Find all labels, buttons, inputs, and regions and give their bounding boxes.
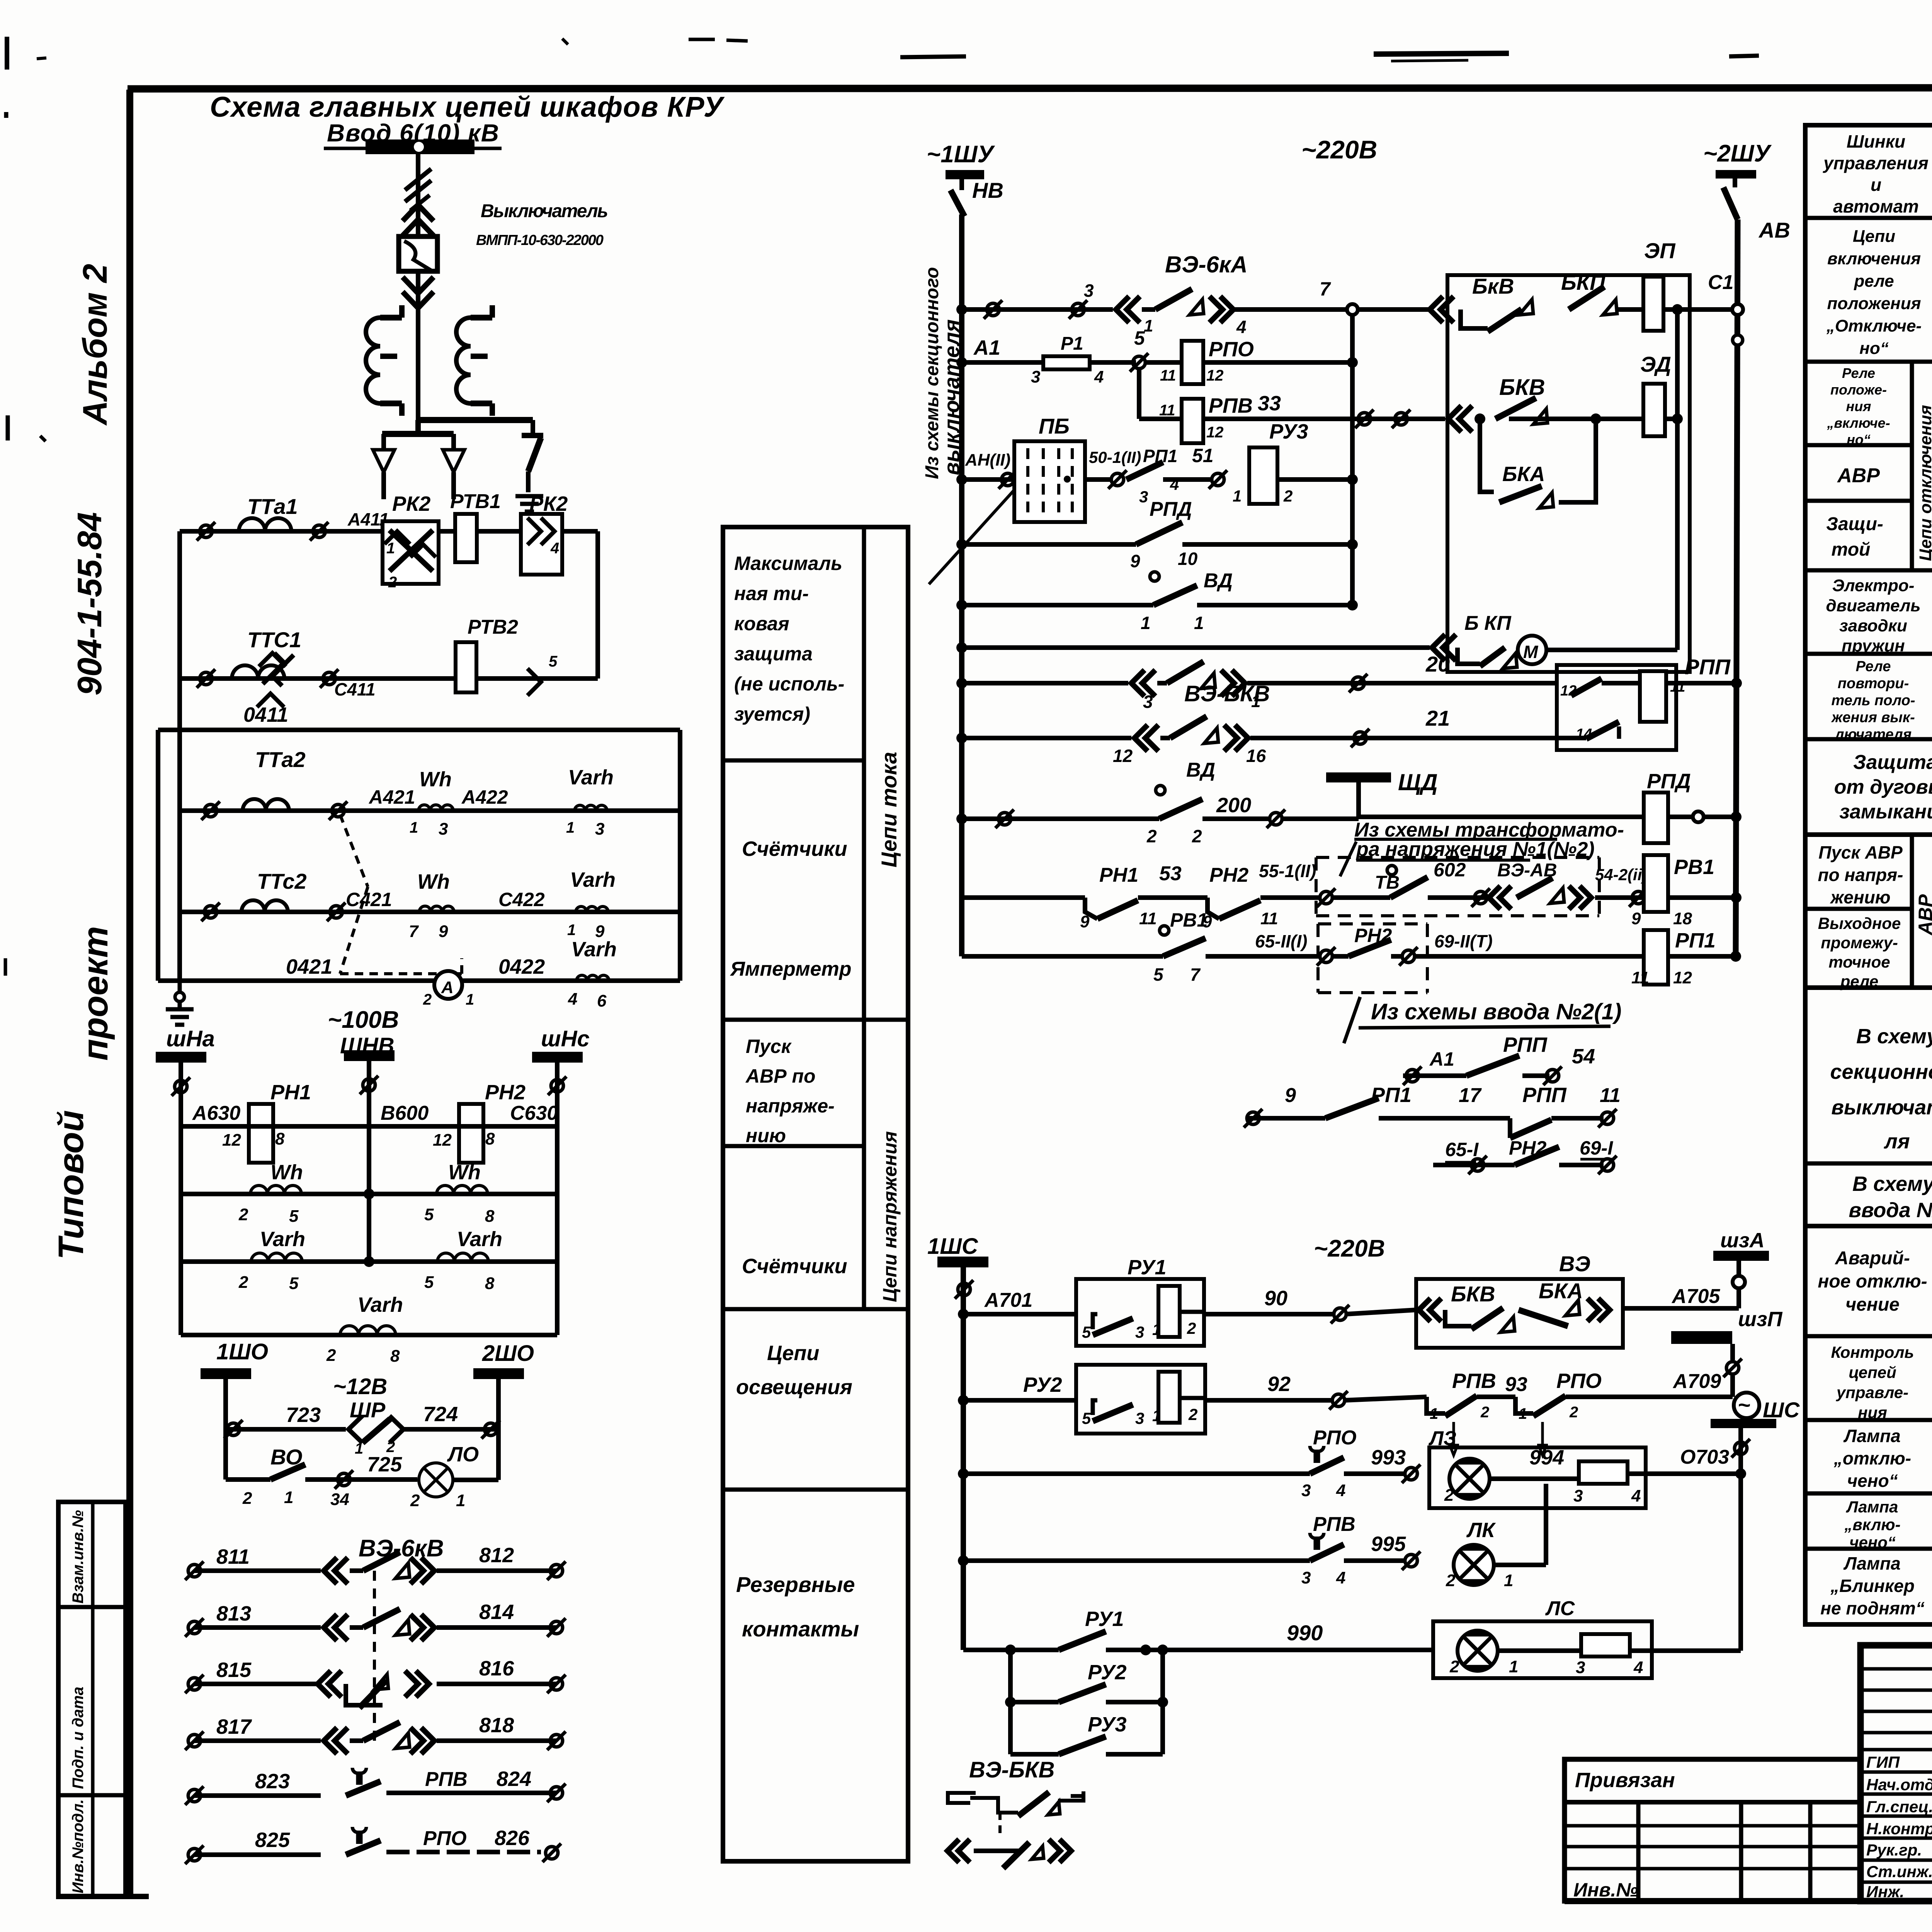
svg-text:~1ШУ: ~1ШУ — [927, 141, 995, 168]
svg-text:А705: А705 — [1671, 1285, 1720, 1308]
inner vertical of БКВ box — [1675, 310, 1680, 650]
svg-text:РПВ: РПВ — [1313, 1513, 1355, 1536]
svg-text:4: 4 — [550, 540, 559, 557]
row text В схему ввода №2 — [1849, 1172, 1932, 1222]
svg-text:11: 11 — [1260, 909, 1278, 928]
svg-text:ЛК: ЛК — [1466, 1519, 1496, 1542]
wire phase C411 — [180, 669, 598, 699]
svg-text:ЛС: ЛС — [1545, 1597, 1575, 1620]
svg-text:2: 2 — [1446, 1571, 1456, 1590]
svg-text:чено“: чено“ — [1847, 1471, 1898, 1491]
symbol ВЭ-БКВ bottom — [947, 1757, 1083, 1868]
voltage transformer winding right — [456, 305, 492, 416]
svg-text:1: 1 — [1509, 1657, 1518, 1676]
left margin stamp table — [58, 1502, 126, 1896]
svg-text:54: 54 — [1572, 1045, 1595, 1068]
circuit-function table left — [723, 527, 908, 1861]
arrester left — [373, 434, 395, 499]
svg-text:Цепи: Цепи — [1853, 227, 1895, 246]
relay РТВ2 — [456, 616, 518, 692]
left rail 1ШУ — [959, 214, 964, 956]
svg-text:Электро-: Электро- — [1832, 576, 1915, 595]
svg-text:ШР: ШР — [350, 1398, 386, 1422]
svg-text:Выключатель: Выключатель — [481, 201, 608, 221]
svg-text:2: 2 — [388, 574, 397, 591]
spare contact 9-РП1 — [1244, 1083, 1412, 1128]
rung 3: РПВ 33 to ЭД — [1139, 335, 1743, 443]
earthing switch branch — [522, 420, 543, 492]
wire ЛС up to ШС — [1738, 1474, 1743, 1651]
wire to ШзП — [1723, 1344, 1742, 1397]
svg-text:2: 2 — [410, 1491, 420, 1510]
rung 5: РПД contact — [956, 498, 1358, 571]
svg-text:РПП: РПП — [1503, 1033, 1548, 1056]
svg-text:ВМПП-10-630-22000: ВМПП-10-630-22000 — [476, 232, 604, 248]
svg-text:контакты: контакты — [742, 1617, 859, 1641]
wire from bus to breaker — [403, 154, 434, 236]
note Из схемы трансформатора напряжения — [1340, 819, 1624, 876]
svg-text:БКВ: БКВ — [1499, 375, 1545, 400]
svg-text:1: 1 — [1141, 613, 1151, 633]
svg-text:РН2: РН2 — [485, 1081, 526, 1104]
svg-text:2: 2 — [238, 1205, 248, 1224]
svg-text:А1: А1 — [1429, 1048, 1454, 1070]
svg-text:Пуск АВР: Пуск АВР — [1818, 842, 1903, 862]
svg-text:но“: но“ — [1847, 432, 1871, 447]
svg-text:Wh: Wh — [417, 870, 450, 893]
bus ШНВ bar — [344, 1050, 395, 1061]
svg-text:~: ~ — [1738, 1393, 1750, 1417]
relay РН2 voltage — [433, 1081, 526, 1163]
svg-text:1: 1 — [456, 1491, 465, 1510]
bus ШНа — [156, 1026, 215, 1063]
svg-text:2ШО: 2ШО — [482, 1341, 534, 1366]
svg-text:РН1: РН1 — [1099, 864, 1138, 886]
svg-text:Реле: Реле — [1856, 658, 1891, 675]
svg-text:Подп. и дата: Подп. и дата — [70, 1687, 87, 1789]
svg-text:Гл.спец.: Гл.спец. — [1866, 1798, 1932, 1816]
svg-text:Ст.инж.: Ст.инж. — [1866, 1862, 1932, 1881]
table text: Резервные контакты — [736, 1572, 859, 1641]
svg-text:М: М — [1523, 642, 1539, 662]
relay РП1 coil — [1631, 929, 1741, 987]
svg-text:зуется): зуется) — [734, 703, 810, 725]
svg-text:положе-: положе- — [1830, 382, 1887, 398]
relay РК2 right — [521, 492, 568, 575]
svg-text:НВ: НВ — [972, 178, 1003, 202]
svg-text:3: 3 — [1301, 1481, 1311, 1500]
svg-text:4: 4 — [1236, 317, 1247, 337]
svg-text:3: 3 — [595, 820, 604, 838]
svg-text:Цепи тока: Цепи тока — [877, 752, 901, 867]
svg-text:2: 2 — [1283, 487, 1293, 505]
svg-text:Цепи напряжения: Цепи напряжения — [879, 1131, 901, 1302]
svg-text:Рук.гр.: Рук.гр. — [1866, 1841, 1922, 1859]
wire 723/724 — [224, 1379, 500, 1480]
svg-text:не поднят“: не поднят“ — [1820, 1598, 1925, 1618]
svg-text:АВ: АВ — [1758, 218, 1790, 242]
svg-text:7: 7 — [1320, 278, 1331, 300]
row text Выходное промежуточное реле — [1818, 914, 1901, 990]
svg-text:2: 2 — [1192, 826, 1202, 846]
svg-text:шзП: шзП — [1738, 1308, 1783, 1331]
svg-text:А701: А701 — [984, 1289, 1032, 1311]
rung 2: А1 R1 РПО — [956, 327, 1358, 386]
svg-text:33: 33 — [1258, 392, 1281, 415]
svg-text:А: А — [441, 978, 454, 997]
svg-text:нию: нию — [746, 1125, 786, 1146]
svg-text:РТВ1: РТВ1 — [450, 490, 501, 513]
row label table signalling block — [1805, 1226, 1932, 1624]
bus ~1ШУ — [927, 141, 995, 190]
svg-text:Схема главных цепей шкафов: Схема главных цепей шкафов КРУ — [210, 91, 725, 123]
svg-text:816: 816 — [479, 1657, 514, 1680]
svg-text:Лампа: Лампа — [1846, 1498, 1898, 1516]
svg-text:90: 90 — [1264, 1287, 1287, 1310]
label Из схемы ввода №2(1) — [1344, 997, 1621, 1043]
svg-text:проект: проект — [76, 926, 115, 1061]
svg-text:725: 725 — [367, 1453, 402, 1476]
row text Цепи включения реле положения Отключено — [1826, 227, 1922, 358]
svg-text:92: 92 — [1267, 1372, 1291, 1396]
svg-text:1ШС: 1ШС — [927, 1234, 978, 1259]
svg-text:РП1: РП1 — [1675, 929, 1716, 952]
svg-text:РУ1: РУ1 — [1085, 1607, 1124, 1631]
svg-text:заводки: заводки — [1839, 616, 1907, 635]
svg-text:1: 1 — [1430, 1405, 1438, 1422]
svg-text:освещения: освещения — [736, 1376, 852, 1399]
svg-text:РПО: РПО — [1313, 1427, 1357, 1449]
rung 4: ПБ РП1 51 РУ3 — [956, 414, 1358, 522]
svg-text:двигатель: двигатель — [1826, 596, 1920, 615]
rung РПО 993 lamp ЛЗ 994 О703 — [958, 1427, 1746, 1508]
svg-text:Wh: Wh — [448, 1161, 481, 1184]
svg-text:Максималь: Максималь — [734, 553, 842, 574]
row label table В схему blocks — [1805, 988, 1932, 1226]
rung 10: ВД 200 to РПД coil — [956, 759, 1359, 846]
svg-text:Счётчики: Счётчики — [742, 1255, 847, 1278]
svg-text:5: 5 — [289, 1207, 299, 1226]
switch ВО and lamp ЛО wire 725 — [226, 1443, 498, 1510]
svg-text:ЛЗ: ЛЗ — [1428, 1427, 1456, 1450]
svg-text:53: 53 — [1159, 862, 1182, 885]
svg-text:ЭП: ЭП — [1644, 238, 1676, 263]
svg-text:РПО: РПО — [423, 1827, 467, 1850]
svg-text:Контроль: Контроль — [1831, 1343, 1914, 1361]
row text Контроль цепей управления — [1831, 1343, 1914, 1422]
svg-text:РУ3: РУ3 — [1269, 420, 1308, 443]
title block signature rows — [1861, 1669, 1932, 1882]
svg-text:шзА: шзА — [1720, 1229, 1765, 1252]
svg-text:„Отключе-: „Отключе- — [1826, 316, 1922, 335]
svg-text:65-II(I): 65-II(I) — [1255, 931, 1307, 951]
svg-text:1: 1 — [355, 1440, 363, 1457]
svg-text:5: 5 — [424, 1273, 434, 1292]
svg-text:2: 2 — [238, 1273, 248, 1292]
svg-text:ная ти-: ная ти- — [734, 583, 809, 604]
svg-text:5: 5 — [549, 653, 558, 670]
svg-text:1: 1 — [1251, 692, 1260, 711]
svg-text:БкВ: БкВ — [1472, 274, 1514, 298]
arrester middle — [443, 434, 464, 499]
svg-text:9: 9 — [439, 922, 448, 941]
svg-text:1: 1 — [1519, 1405, 1527, 1422]
svg-text:РК2: РК2 — [392, 492, 430, 515]
Wh meters row — [181, 1161, 557, 1226]
bypass contact БКА — [1480, 419, 1596, 515]
svg-text:РВ1: РВ1 — [1170, 909, 1207, 931]
svg-text:1ШО: 1ШО — [216, 1339, 268, 1364]
svg-text:823: 823 — [255, 1770, 290, 1793]
svg-text:4: 4 — [1336, 1481, 1345, 1500]
svg-text:1: 1 — [466, 991, 474, 1008]
svg-text:Лампа: Лампа — [1843, 1426, 1900, 1446]
svg-text:включения: включения — [1827, 249, 1921, 268]
svg-text:„вклю-: „вклю- — [1844, 1515, 1900, 1534]
svg-text:А630: А630 — [192, 1102, 240, 1124]
svg-text:826: 826 — [495, 1827, 530, 1850]
svg-text:0411: 0411 — [243, 703, 288, 726]
junction vertical x2948 — [1137, 369, 1141, 419]
ground symbol — [515, 494, 543, 498]
svg-text:АВР по: АВР по — [745, 1065, 816, 1087]
rung 9: contact 21 — [956, 706, 1586, 766]
svg-text:Реле: Реле — [1842, 365, 1875, 381]
svg-text:~100В: ~100В — [328, 1007, 399, 1033]
svg-text:5: 5 — [424, 1205, 434, 1224]
svg-text:8: 8 — [275, 1129, 285, 1148]
svg-text:тель поло-: тель поло- — [1831, 692, 1915, 709]
svg-text:818: 818 — [479, 1714, 514, 1737]
bus ШНс — [532, 1026, 590, 1063]
svg-text:Привязан: Привязан — [1575, 1769, 1675, 1792]
row text Электродвигатель заводки пружин — [1826, 576, 1920, 655]
svg-text:Цепи: Цепи — [767, 1342, 819, 1365]
svg-text:1: 1 — [284, 1488, 293, 1507]
svg-text:20: 20 — [1425, 652, 1450, 676]
svg-text:РН2: РН2 — [1209, 864, 1248, 886]
svg-text:управления: управления — [1823, 153, 1929, 173]
svg-text:ное отклю-: ное отклю- — [1818, 1271, 1927, 1292]
relay РН1 voltage — [222, 1081, 311, 1163]
svg-text:Wh: Wh — [419, 768, 452, 791]
svg-text:4: 4 — [1336, 1568, 1345, 1587]
relay РТВ1 — [450, 490, 501, 562]
switch НВ — [951, 178, 1003, 216]
svg-text:9: 9 — [1130, 551, 1140, 571]
svg-text:„Блинкер: „Блинкер — [1830, 1576, 1915, 1596]
svg-text:3: 3 — [1573, 1486, 1583, 1505]
svg-text:1: 1 — [1144, 316, 1153, 335]
svg-text:Wh: Wh — [270, 1161, 303, 1184]
svg-text:65-I: 65-I — [1445, 1139, 1479, 1160]
svg-text:ля: ля — [1883, 1130, 1910, 1153]
svg-text:Инв.№подл.: Инв.№подл. — [70, 1799, 87, 1893]
svg-text:автомат: автомат — [1833, 196, 1919, 216]
svg-text:ВД: ВД — [1204, 570, 1233, 592]
wire C421 with meters — [180, 868, 680, 941]
row text Лампа Блинкер не поднят — [1820, 1553, 1925, 1618]
row text Аварийное отключение — [1818, 1248, 1927, 1315]
svg-text:2: 2 — [1187, 1319, 1196, 1337]
node 994 vertical — [1544, 1484, 1548, 1565]
svg-text:8: 8 — [485, 1274, 495, 1293]
svg-text:ТТС1: ТТС1 — [247, 628, 301, 652]
svg-text:той: той — [1832, 539, 1871, 560]
bus 1ШО — [201, 1339, 268, 1379]
label Выключатель ВМПП-10-630-22000 — [476, 201, 608, 248]
svg-text:и: и — [1871, 175, 1881, 195]
row label table right — [1805, 125, 1932, 835]
svg-text:1: 1 — [1504, 1571, 1513, 1590]
svg-text:5: 5 — [289, 1274, 299, 1293]
svg-text:Шинки: Шинки — [1847, 131, 1905, 151]
svg-text:АВР: АВР — [1837, 464, 1880, 487]
svg-text:3: 3 — [1084, 281, 1094, 301]
row text Реле положения включено — [1827, 365, 1890, 447]
svg-text:Защита: Защита — [1853, 751, 1932, 774]
svg-text:Р1: Р1 — [1061, 333, 1083, 354]
svg-text:4: 4 — [1631, 1486, 1641, 1505]
svg-text:10: 10 — [1178, 549, 1198, 569]
wire phase A411 — [180, 509, 598, 541]
svg-text:А421: А421 — [368, 786, 415, 808]
svg-text:БКА: БКА — [1539, 1279, 1583, 1303]
svg-text:В600: В600 — [381, 1102, 429, 1124]
svg-text:Нач.отд.: Нач.отд. — [1866, 1776, 1932, 1794]
svg-text:промежу-: промежу- — [1821, 934, 1898, 952]
svg-text:Резервные: Резервные — [736, 1572, 855, 1597]
svg-text:2: 2 — [326, 1346, 336, 1365]
svg-text:3: 3 — [1135, 1409, 1144, 1427]
svg-text:положения: положения — [1827, 294, 1921, 313]
svg-text:16: 16 — [1246, 746, 1266, 766]
row text Защитой — [1826, 514, 1883, 560]
svg-text:~2ШУ: ~2ШУ — [1703, 140, 1772, 167]
svg-text:секционного: секционного — [1830, 1060, 1932, 1083]
Varh meter bottom — [181, 1293, 557, 1366]
svg-text:12: 12 — [1113, 746, 1133, 766]
row label table middle (АВР rows) — [1805, 835, 1932, 988]
reserve contact row 823/824 РПВ — [185, 1767, 566, 1805]
svg-text:825: 825 — [255, 1828, 290, 1852]
svg-text:2: 2 — [1146, 826, 1157, 846]
svg-text:723: 723 — [286, 1403, 321, 1427]
svg-text:РВ1: РВ1 — [1674, 855, 1714, 879]
svg-text:РУ2: РУ2 — [1088, 1661, 1127, 1684]
svg-text:Инж.: Инж. — [1866, 1883, 1904, 1901]
signature role names — [1866, 1753, 1932, 1901]
svg-text:Инв.№: Инв.№ — [1573, 1879, 1638, 1901]
svg-text:РН1: РН1 — [270, 1081, 311, 1104]
svg-text:С421: С421 — [346, 889, 392, 910]
svg-text:БКА: БКА — [1502, 463, 1545, 486]
rail 1ШС — [955, 1267, 973, 1650]
reserve contact row 817/818 — [194, 1738, 321, 1743]
svg-text:2: 2 — [242, 1489, 252, 1508]
svg-text:РПВ: РПВ — [1209, 394, 1253, 417]
svg-text:5: 5 — [1134, 327, 1145, 349]
svg-text:2: 2 — [1480, 1404, 1489, 1421]
svg-text:но“: но“ — [1859, 339, 1888, 358]
bus ЩД — [1326, 769, 1438, 819]
bus 1ШС — [927, 1234, 988, 1267]
svg-text:РП1: РП1 — [1371, 1083, 1412, 1107]
svg-text:9: 9 — [1080, 912, 1090, 931]
svg-text:12: 12 — [222, 1131, 241, 1150]
svg-text:~220В: ~220В — [1301, 135, 1377, 164]
wire A421 with meters — [180, 766, 680, 838]
svg-text:ТТа2: ТТа2 — [255, 747, 306, 772]
svg-text:по напря-: по напря- — [1818, 865, 1903, 885]
spare contact 65-I РН2 69-I — [1433, 1137, 1617, 1174]
parallel РУ2 РУ3 contacts — [1005, 1645, 1168, 1754]
svg-text:Б КП: Б КП — [1464, 612, 1512, 634]
svg-text:1: 1 — [1194, 613, 1204, 633]
wire 0421 with ammeter — [158, 938, 680, 1010]
svg-text:РПВ: РПВ — [1452, 1369, 1496, 1393]
wire below breaker — [403, 271, 434, 434]
svg-text:РПД: РПД — [1150, 498, 1192, 520]
row text Реле повторитель положения выключателя — [1831, 658, 1915, 743]
bus ~2ШУ — [1703, 140, 1772, 187]
svg-text:817: 817 — [216, 1715, 252, 1738]
current transformer TTC1 — [232, 628, 301, 679]
svg-text:93: 93 — [1505, 1373, 1527, 1396]
svg-text:В схему: В схему — [1852, 1172, 1932, 1196]
svg-text:8: 8 — [485, 1207, 495, 1226]
svg-text:точное: точное — [1828, 953, 1890, 971]
svg-text:напряже-: напряже- — [746, 1095, 835, 1117]
svg-text:ГИП: ГИП — [1866, 1753, 1900, 1771]
svg-text:3: 3 — [1135, 1323, 1144, 1341]
svg-text:995: 995 — [1371, 1532, 1406, 1556]
svg-text:Ямперметр: Ямперметр — [730, 958, 852, 980]
svg-text:811: 811 — [216, 1545, 250, 1568]
svg-text:11: 11 — [1160, 367, 1176, 384]
svg-text:8: 8 — [390, 1347, 400, 1366]
svg-text:12: 12 — [433, 1131, 452, 1150]
svg-text:4: 4 — [568, 990, 577, 1009]
svg-text:замыканий: замыканий — [1839, 801, 1932, 823]
svg-text:РТВ2: РТВ2 — [468, 616, 518, 638]
svg-text:ЭД: ЭД — [1640, 352, 1671, 376]
stamp Привязан — [1565, 1759, 1861, 1901]
svg-text:11: 11 — [1159, 402, 1175, 419]
svg-text:3: 3 — [439, 820, 448, 838]
svg-text:повтори-: повтори- — [1838, 675, 1909, 692]
svg-text:1: 1 — [1233, 487, 1242, 505]
svg-text:11: 11 — [1631, 968, 1649, 987]
rung РУ1 90 ВЭ БКВ-БКА А705 — [958, 1256, 1416, 1346]
svg-text:12: 12 — [1560, 683, 1577, 699]
svg-text:Типовой: Типовой — [51, 1110, 91, 1260]
row text В схему секционного выключателя — [1830, 1025, 1932, 1153]
contacts РПВ РПО with release arrows — [1427, 1369, 1733, 1455]
reserve contact row 813/814 — [194, 1625, 321, 1630]
svg-text:2: 2 — [1449, 1657, 1459, 1676]
svg-text:Цепи отключения: Цепи отключения — [1916, 405, 1932, 561]
svg-text:Из схемы ввода №2(1): Из схемы ввода №2(1) — [1371, 999, 1621, 1024]
svg-text:814: 814 — [479, 1600, 514, 1624]
rung 12: РВ1 contact 65-II РН2 69-II to РП1 coil — [962, 909, 1335, 985]
svg-text:2: 2 — [1444, 1486, 1454, 1505]
svg-text:2: 2 — [1569, 1404, 1578, 1421]
voltage transformer winding left — [366, 305, 402, 416]
svg-text:Выходное: Выходное — [1818, 914, 1901, 932]
svg-text:990: 990 — [1287, 1621, 1323, 1645]
junction vertical x3500 — [1350, 315, 1355, 605]
